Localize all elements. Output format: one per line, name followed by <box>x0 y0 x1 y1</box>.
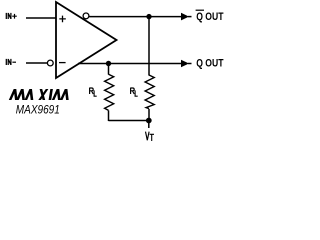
svg-text:Q OUT: Q OUT <box>196 11 224 23</box>
junction dot Qbar node <box>146 14 151 19</box>
label VT <box>146 132 150 141</box>
logo letter X <box>38 89 48 100</box>
arrow Q out <box>181 60 189 68</box>
wire from Q node down to RL1 <box>108 64 110 75</box>
plus sign <box>59 16 66 23</box>
label RL2 <box>131 88 135 94</box>
label IN+ <box>6 13 11 19</box>
inverting input bubble <box>47 60 53 66</box>
logo letter M2 <box>52 89 61 100</box>
label IN- <box>6 59 11 65</box>
MAXIM logo <box>9 89 69 100</box>
arrow Qbar out <box>181 13 189 21</box>
wire Qbar output <box>89 16 182 18</box>
label Qbar OUT <box>196 9 204 11</box>
Qbar output bubble <box>83 13 89 19</box>
resistor RL2 <box>145 75 154 109</box>
wire IN+ input <box>26 17 56 19</box>
wire bottom joining RL1 and RL2 <box>109 120 149 122</box>
wire VT stub <box>148 121 150 129</box>
resistor RL1 <box>105 74 114 110</box>
logo letter M1 <box>9 89 18 100</box>
wire RL1 bottom lead <box>108 110 110 121</box>
minus sign <box>59 62 66 64</box>
wire RL2 bottom lead <box>148 109 150 121</box>
wire IN- input <box>26 62 47 64</box>
junction dot Q node <box>106 61 111 66</box>
logo letter I <box>49 89 53 100</box>
logo letter A <box>25 89 34 100</box>
svg-text:Q OUT: Q OUT <box>196 57 224 69</box>
junction dot VT node <box>146 118 152 124</box>
wire Q output <box>78 63 182 65</box>
comparator U1 triangle <box>56 2 117 78</box>
svg-text:MAX9691: MAX9691 <box>16 102 60 116</box>
label RL1 <box>90 88 94 94</box>
wire from Qbar node down to RL2 <box>148 17 150 76</box>
